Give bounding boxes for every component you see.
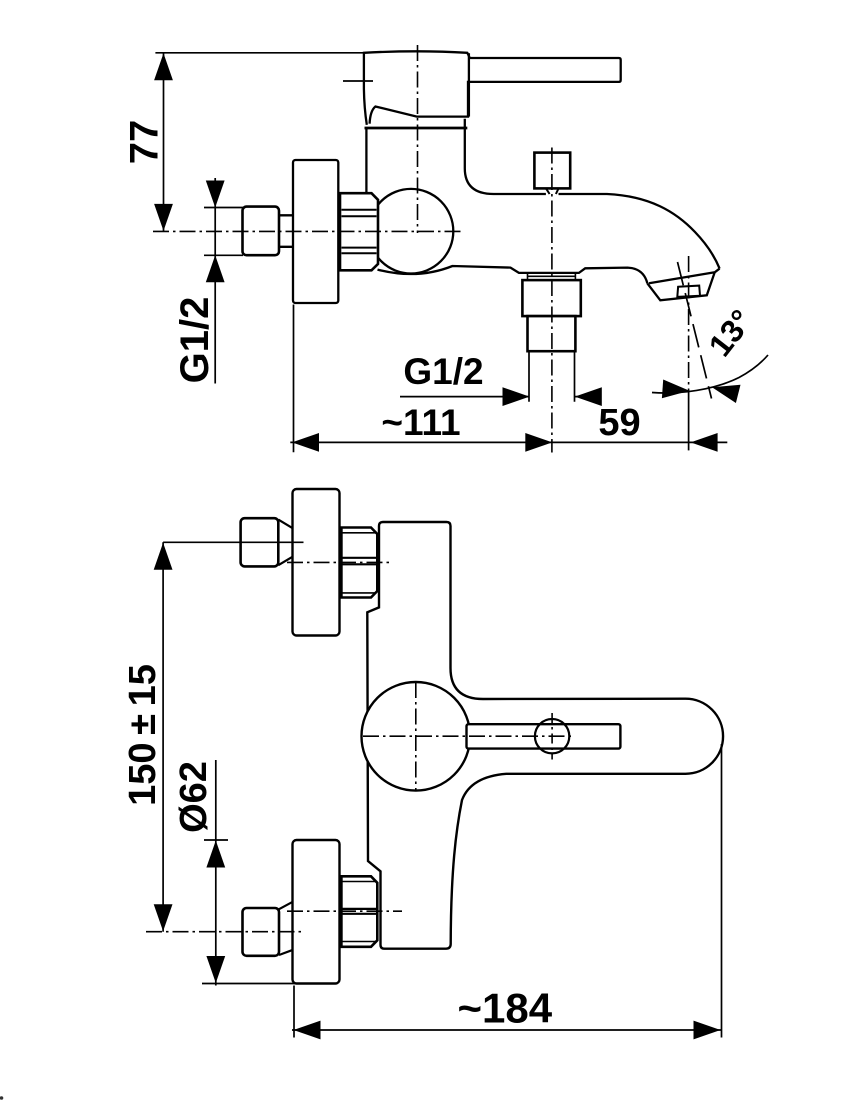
bottom hex nut [341, 876, 377, 947]
top hex nut [341, 528, 377, 598]
dim G1/2 left [204, 178, 243, 384]
lever screw circle [535, 719, 569, 753]
G1/2 eccentric nipple [243, 207, 280, 256]
top view: faucet side elevation [123, 45, 768, 453]
nozzle vertical reference line [688, 256, 690, 390]
page artifact dot [0, 1096, 3, 1100]
dim 150 +/- 15 [162, 542, 164, 931]
hex nut on wall connection (side view) [340, 193, 378, 270]
top wall flange (plan) [293, 489, 340, 636]
svg-text:G1/2: G1/2 [403, 351, 483, 392]
svg-text:G1/2: G1/2 [173, 297, 217, 384]
centrelines plan view [287, 561, 393, 563]
aerator insert [677, 286, 700, 297]
faucet body outline (plan) [367, 522, 723, 949]
svg-text:59: 59 [598, 402, 640, 444]
vertical centreline of cartridge [417, 45, 419, 233]
svg-text:77: 77 [123, 120, 167, 165]
dim 77 [155, 52, 364, 54]
valve body block [366, 119, 546, 194]
top eccentric nipple [241, 518, 279, 566]
bottom view: faucet plan view [122, 489, 723, 1039]
vertical centreline of outlet/knob [551, 148, 553, 453]
dim G1/2 middle (outlet) [400, 352, 601, 402]
shower outlet connection below body [528, 274, 576, 280]
diverter knob [534, 153, 570, 189]
cap centre tick [343, 80, 373, 82]
horizontal centreline [153, 230, 462, 232]
body top edge [365, 127, 468, 130]
cartridge ball (plan circle) [362, 682, 471, 791]
lever handle and cartridge cap [364, 51, 621, 125]
cap/handle joint vertical [468, 53, 470, 116]
cartridge ball housing (side view circle) [369, 189, 454, 274]
dim 13 degrees [652, 355, 768, 393]
wall flange escutcheon (side view) [293, 160, 338, 303]
bottom eccentric nipple [243, 908, 280, 956]
spout top curve [559, 194, 720, 269]
dim diameter 62 [202, 760, 301, 986]
spout nozzle aerator collar [647, 269, 719, 301]
body bottom profile under ball to outlet and nozzle [378, 266, 648, 283]
bottom wall flange (plan) [293, 840, 340, 984]
svg-text:~111: ~111 [381, 402, 460, 443]
13 deg spray axis dashed [678, 262, 712, 399]
svg-text:~184: ~184 [457, 985, 552, 1032]
svg-text:Ø62: Ø62 [173, 761, 215, 833]
lever bar (plan) [467, 724, 621, 748]
dim ~111 and 59 [290, 305, 727, 453]
svg-text:150 ± 15: 150 ± 15 [122, 664, 164, 806]
dim ~184 [292, 744, 722, 1038]
